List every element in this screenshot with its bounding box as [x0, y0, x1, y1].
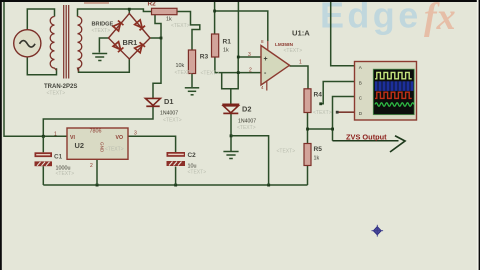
node junction bridge top	[128, 8, 131, 11]
svg-text:<TEXT>: <TEXT>	[171, 23, 190, 29]
svg-text:R1: R1	[223, 39, 232, 46]
svg-text:C1: C1	[54, 154, 63, 161]
svg-text:3: 3	[134, 131, 137, 137]
wire: ZVS output line	[333, 140, 399, 142]
output terminal arrow	[390, 136, 405, 152]
svg-text:1N4007: 1N4007	[238, 119, 256, 125]
node junction U2 gnd on rail	[96, 184, 99, 187]
wire: R3 bottom to ground	[191, 74, 193, 88]
letterbox left bar	[0, 0, 2, 270]
wire: supply rail from top bar through R1 top to op-amp pin8	[214, 1, 216, 34]
node junction right	[331, 128, 334, 131]
svg-text:+: +	[264, 56, 268, 63]
letterbox right bar	[479, 0, 480, 270]
resistor R2	[152, 8, 178, 14]
wire: scope A channel from top bar	[331, 1, 355, 66]
svg-text:<TEXT>: <TEXT>	[201, 71, 220, 77]
svg-text:<TEXT>: <TEXT>	[277, 149, 296, 155]
terminal dot B wire end	[319, 102, 322, 105]
svg-text:BRIDGE: BRIDGE	[92, 22, 114, 28]
svg-text:GND: GND	[100, 142, 105, 153]
svg-text:<TEXT>: <TEXT>	[163, 118, 182, 124]
wire: bridge right node down to D1	[153, 38, 161, 98]
svg-text:B: B	[359, 80, 362, 85]
svg-text:ZVS Output: ZVS Output	[346, 133, 387, 142]
wire: scope B channel dangling end	[321, 82, 355, 104]
node junction D2 bottom tee	[230, 134, 233, 137]
svg-text:<TEXT>: <TEXT>	[56, 171, 75, 177]
wire: junction rail between R4/R5 column and output column	[308, 128, 333, 130]
oscilloscope	[355, 62, 417, 121]
svg-text:VO: VO	[116, 135, 124, 141]
wire: scope C channel down to output node	[333, 97, 355, 141]
wire: op-amp output to R4 top	[290, 66, 309, 89]
wire: R1 bottom to op-amp pin2	[215, 57, 261, 73]
svg-text:2: 2	[249, 68, 252, 74]
svg-text:<TEXT>: <TEXT>	[92, 28, 111, 34]
op-amp V- pin stub	[266, 81, 268, 91]
wire: U2 GND pin down to rail	[96, 159, 98, 185]
bridge rectifier BR1 diamond	[109, 14, 151, 60]
scope trace D green sine	[375, 103, 414, 106]
wire: R5 bottom to ground rail	[307, 166, 309, 186]
svg-text:7806: 7806	[90, 129, 102, 135]
wire: bridge top vertex stub	[128, 9, 130, 14]
wire: left rail from top bar down to U2 VI	[4, 1, 67, 136]
wire: AC source bottom to transformer primary bottom	[27, 57, 56, 75]
ground (below D2)	[223, 152, 238, 159]
diode D1	[145, 98, 160, 106]
svg-text:<TEXT>: <TEXT>	[237, 125, 256, 131]
capacitor C1 electrolytic	[35, 152, 53, 166]
diode D2	[222, 104, 239, 113]
svg-text:U1:A: U1:A	[292, 29, 310, 38]
wire: D1 cathode long wire to C1/U2 node	[43, 107, 153, 137]
wire: bottom ground rail	[43, 184, 307, 186]
svg-text:BR1: BR1	[123, 38, 138, 47]
svg-text:C2: C2	[188, 152, 197, 159]
wire: bridge left vertex to ground	[99, 38, 108, 53]
op-amp U1:A LM358N	[261, 46, 290, 86]
wire: R2 right side down to R3 top	[177, 12, 200, 51]
svg-text:1k: 1k	[314, 155, 320, 161]
bridge diode bottom-right	[135, 42, 145, 52]
cut-off source label	[84, 1, 109, 4]
wire: pin2 node loop to D2 anode	[222, 57, 239, 89]
op-amp V+ pin stub	[267, 41, 269, 51]
svg-text:8: 8	[261, 39, 264, 44]
wire: C1 bottom to ground rail	[42, 166, 44, 185]
right edge white line	[477, 0, 479, 270]
AC source V1	[14, 30, 41, 57]
ground (bridge negative)	[92, 54, 107, 61]
node junction left	[306, 128, 309, 131]
wire: AC source top to transformer primary	[27, 9, 54, 30]
scope trace C red square wave	[375, 92, 412, 98]
resistor R5	[304, 144, 311, 166]
svg-text:1N4007: 1N4007	[160, 111, 178, 117]
node junction D2 column on rail	[267, 184, 270, 187]
letterbox top bar	[0, 0, 480, 2]
svg-text:R3: R3	[200, 54, 209, 61]
terminal dot D stub	[336, 111, 339, 114]
svg-text:10k: 10k	[176, 63, 185, 69]
wire: transformer secondary top to bridge top and R2	[78, 9, 152, 17]
svg-text:<TEXT>: <TEXT>	[188, 170, 207, 176]
wire: D2 top stub	[230, 89, 232, 104]
wire: transformer secondary bottom to bridge bottom vertex	[79, 59, 130, 73]
svg-text:LM358N: LM358N	[275, 42, 294, 47]
transformer secondary winding	[78, 17, 82, 72]
wire: bridge right vertex up to R2 left node	[150, 12, 161, 39]
svg-text:fx: fx	[424, 0, 456, 38]
bridge diode top-left	[113, 20, 123, 30]
wire: R4 bottom to R5 top junction	[307, 113, 309, 144]
scope screen green edge	[373, 69, 414, 114]
wire: vertical feed from top bar to op-amp pin3	[238, 1, 261, 57]
resistor R1	[212, 34, 219, 57]
svg-text:<TEXT>: <TEXT>	[47, 91, 66, 97]
wire: D2 node to right column	[231, 136, 269, 185]
wire: C1 stem top	[42, 136, 44, 152]
svg-text:TRAN-2P2S: TRAN-2P2S	[44, 84, 77, 90]
svg-text:R4: R4	[314, 91, 323, 98]
svg-text:1: 1	[54, 131, 57, 137]
svg-text:1: 1	[299, 60, 302, 66]
cursor marker blue diamond	[372, 225, 384, 237]
wire: D2 cathode down to ground and tee right	[230, 114, 232, 151]
transformer TRAN-2P2S primary winding	[50, 17, 56, 71]
node junction at C1 top	[42, 135, 45, 138]
regulator U2 7806	[67, 128, 128, 159]
svg-text:1k: 1k	[166, 17, 172, 23]
svg-text:D1: D1	[164, 97, 173, 106]
wire: U2 VO to C2 top	[128, 136, 176, 152]
node junction pin2 tee	[237, 71, 240, 74]
wire: C2 bottom to rail	[175, 167, 177, 186]
svg-text:1k: 1k	[223, 48, 229, 54]
scope trace A yellow-green square wave	[375, 72, 412, 78]
svg-text:D2: D2	[242, 105, 251, 114]
svg-text:4: 4	[261, 85, 264, 90]
svg-text:2: 2	[90, 163, 93, 169]
node junction C2 on rail	[174, 184, 177, 187]
wire: scope D channel stub (red pin)	[338, 111, 355, 113]
node junction R1 top	[213, 10, 216, 13]
svg-text:R5: R5	[314, 146, 323, 153]
wire: R1 top node to op-amp V+ stub	[215, 11, 268, 41]
scope trace B blue band	[375, 81, 414, 91]
svg-text:<TEXT>: <TEXT>	[284, 48, 303, 54]
capacitor C2 electrolytic	[167, 152, 186, 166]
svg-text:<TEXT>: <TEXT>	[313, 110, 332, 116]
svg-text:<TEXT>: <TEXT>	[105, 147, 124, 153]
node junction pin3 tee	[237, 56, 240, 59]
bridge diode bottom-left	[113, 42, 123, 52]
ground (below R3)	[185, 88, 199, 95]
scope screen	[373, 69, 414, 114]
svg-text:3: 3	[248, 52, 251, 58]
node junction at bridge right vertex wire	[160, 37, 163, 40]
svg-text:<TEXT>: <TEXT>	[175, 70, 194, 76]
resistor R4	[304, 89, 311, 113]
resistor R3	[188, 50, 195, 74]
transformer core	[64, 5, 69, 79]
svg-text:U2: U2	[75, 141, 84, 150]
bridge diode top-right	[135, 20, 145, 30]
svg-text:Edge: Edge	[320, 0, 422, 36]
